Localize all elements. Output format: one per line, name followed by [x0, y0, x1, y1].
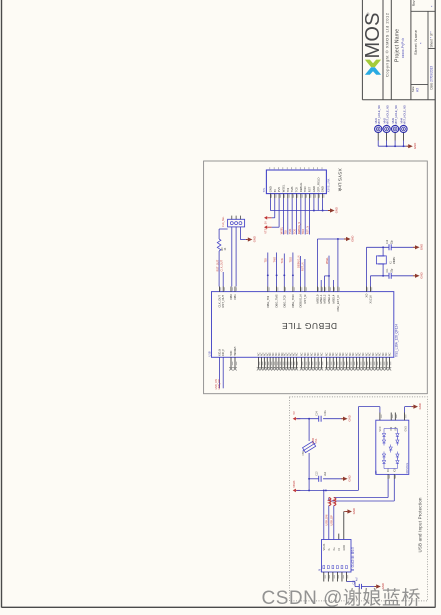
- svg-text:DBG_TMS: DBG_TMS: [275, 294, 279, 307]
- svg-text:Copyright © XMOS Ltd 2012: Copyright © XMOS Ltd 2012: [385, 12, 390, 77]
- svg-text:GND: GND: [420, 272, 424, 278]
- svg-text:MSEL0: MSEL0: [315, 294, 319, 303]
- svg-text:MNT_HOLE_M3: MNT_HOLE_M3: [385, 105, 389, 125]
- svg-text:FB1: FB1: [302, 450, 305, 455]
- svg-text:D+: D+: [333, 547, 336, 551]
- svg-text:SOT23-6L: SOT23-6L: [407, 462, 409, 473]
- svg-text:TDO: TDO: [289, 257, 293, 262]
- svg-text:TCK: TCK: [292, 229, 296, 234]
- svg-text:RST_OUT: RST_OUT: [221, 295, 225, 308]
- svg-text:Date 27/09/2013: Date 27/09/2013: [430, 66, 434, 90]
- svg-text:VCC: VCC: [379, 426, 382, 431]
- svg-text:RST_N: RST_N: [301, 262, 305, 271]
- svg-text:NC: NC: [295, 352, 298, 356]
- svg-text:NC: NC: [388, 352, 391, 356]
- svg-text:GND: GND: [252, 236, 256, 242]
- svg-text:OTP_FIELD: OTP_FIELD: [316, 178, 320, 193]
- svg-text:TCK: TCK: [280, 258, 284, 263]
- svg-text:Sheet Name: Sheet Name: [413, 29, 418, 55]
- svg-text:TDI: TDI: [286, 188, 290, 193]
- svg-text:TDO: TDO: [303, 187, 307, 193]
- svg-text:GND: GND: [420, 244, 424, 250]
- svg-text:C12: C12: [387, 239, 389, 244]
- svg-text:TMODE5: TMODE5: [235, 346, 237, 356]
- svg-text:MNT_HOLE_M3: MNT_HOLE_M3: [402, 105, 406, 125]
- svg-text:C15: C15: [354, 580, 356, 585]
- svg-text:GND: GND: [405, 426, 408, 432]
- svg-text:TMS: TMS: [272, 257, 276, 263]
- svg-text:xxxxx.PrjPcb: xxxxx.PrjPcb: [401, 38, 405, 58]
- svg-text:CSDN @谢娘蓝桥: CSDN @谢娘蓝桥: [262, 587, 421, 609]
- svg-text:ID: ID: [338, 548, 341, 551]
- svg-text:MSEL4: MSEL4: [331, 294, 335, 303]
- svg-text:XSYS_LINK: XSYS_LINK: [328, 178, 331, 192]
- svg-text:5V: 5V: [273, 189, 277, 192]
- svg-text:VBUS: VBUS: [292, 480, 296, 487]
- svg-text:GND: GND: [418, 403, 422, 409]
- svg-text:DBG_TCK: DBG_TCK: [282, 295, 286, 308]
- svg-text:GND: GND: [348, 415, 352, 421]
- svg-text:XO: XO: [365, 294, 369, 298]
- svg-text:OSC_EXT_N: OSC_EXT_N: [336, 295, 340, 311]
- svg-text:VTS: VTS: [263, 228, 267, 233]
- svg-text:MSEL: MSEL: [325, 257, 329, 265]
- svg-text:600R: 600R: [313, 438, 315, 444]
- svg-text:®: ®: [367, 12, 370, 17]
- svg-text:1.5A: 1.5A: [315, 438, 318, 443]
- svg-text:D-: D-: [328, 548, 331, 551]
- svg-text:USB_DP: USB_DP: [330, 515, 334, 526]
- svg-text:GND: GND: [268, 186, 272, 192]
- svg-text:GND: GND: [351, 236, 355, 242]
- svg-text:NC: NC: [320, 352, 323, 356]
- svg-text:TDO: TDO: [301, 229, 305, 234]
- svg-text:A3: A3: [415, 88, 419, 92]
- svg-text:XSYS Link: XSYS Link: [336, 168, 342, 192]
- svg-text:RST_N: RST_N: [303, 295, 307, 304]
- svg-text:PV5: PV5: [277, 187, 281, 193]
- svg-text:TDIO: TDIO: [231, 351, 233, 357]
- svg-text:GND: GND: [335, 207, 339, 213]
- svg-text:GND: GND: [343, 545, 346, 551]
- svg-text:TMS: TMS: [290, 186, 294, 192]
- svg-text:Project Name: Project Name: [394, 29, 400, 62]
- svg-text:1K: 1K: [225, 247, 227, 250]
- svg-text:Sheet * of *: Sheet * of *: [429, 31, 433, 48]
- svg-text:MSEL2: MSEL2: [323, 294, 327, 303]
- svg-text:DB1: DB1: [233, 294, 237, 300]
- svg-text:MOS: MOS: [362, 13, 384, 59]
- svg-text:XS1_L16A_128_QF124: XS1_L16A_128_QF124: [395, 324, 399, 357]
- svg-text:MNT_HOLE_M3: MNT_HOLE_M3: [394, 105, 398, 125]
- svg-text:TDI: TDI: [284, 230, 288, 234]
- svg-text:TCK: TCK: [295, 187, 299, 193]
- svg-text:MNT_HOLE_M3: MNT_HOLE_M3: [377, 105, 381, 125]
- svg-text:GND: GND: [312, 186, 316, 192]
- svg-text:X1CLK: X1CLK: [369, 295, 373, 304]
- svg-text:5V: 5V: [263, 221, 267, 224]
- svg-text:GND: GND: [413, 143, 417, 149]
- svg-text:C14: C14: [317, 411, 319, 416]
- svg-text:DBG_TDO: DBG_TDO: [291, 295, 295, 308]
- svg-text:24MHz: 24MHz: [394, 256, 396, 264]
- svg-text:GND: GND: [348, 475, 352, 481]
- svg-text:DB0: DB0: [229, 294, 233, 300]
- svg-text:GND: GND: [352, 508, 356, 514]
- svg-text:VBUS: VBUS: [323, 543, 326, 550]
- svg-text:MSEL3: MSEL3: [327, 294, 331, 303]
- svg-text:5V: 5V: [292, 411, 296, 414]
- svg-text:C13: C13: [317, 471, 319, 476]
- svg-text:CLK_OUT: CLK_OUT: [218, 295, 222, 308]
- svg-text:DEBUG_N: DEBUG_N: [299, 294, 303, 307]
- svg-text:DEBUG: DEBUG: [299, 183, 303, 193]
- svg-text:DEBUG_N: DEBUG_N: [296, 255, 300, 268]
- svg-text:DEBUG_N: DEBUG_N: [297, 222, 301, 235]
- svg-text:100n: 100n: [325, 410, 327, 416]
- svg-text:WSEL: WSEL: [279, 226, 283, 234]
- svg-text:WSEL: WSEL: [281, 184, 285, 192]
- svg-text:X0D_P: X0D_P: [223, 348, 225, 356]
- svg-text:RST_OUT: RST_OUT: [216, 259, 219, 271]
- svg-text:TP1: TP1: [263, 187, 266, 192]
- svg-text:RST: RST: [308, 186, 312, 192]
- svg-text:TMS: TMS: [288, 229, 292, 235]
- svg-text:USB and Input Protection: USB and Input Protection: [417, 497, 422, 553]
- svg-text:U1B: U1B: [208, 351, 212, 356]
- svg-text:DBG_TDI: DBG_TDI: [266, 296, 270, 308]
- svg-text:TDI: TDI: [264, 258, 268, 262]
- svg-text:USB MICRO B: USB MICRO B: [351, 547, 355, 571]
- svg-text:Rev: Rev: [412, 0, 416, 6]
- svg-text:X0D_N: X0D_N: [220, 348, 222, 356]
- svg-text:USB_DM: USB_DM: [325, 515, 329, 526]
- svg-text:CLK_OUT: CLK_OUT: [221, 259, 224, 271]
- svg-text:USB_DP: USB_DP: [218, 379, 221, 389]
- svg-text:GND: GND: [321, 186, 325, 192]
- svg-text:RST_N: RST_N: [305, 226, 309, 235]
- svg-text:CLK_SEL: CLK_SEL: [222, 216, 225, 227]
- svg-text:DEBUG TILE: DEBUG TILE: [282, 321, 337, 331]
